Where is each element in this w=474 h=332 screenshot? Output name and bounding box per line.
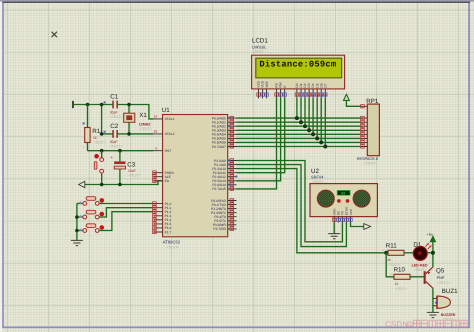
svg-text:<TEXT>: <TEXT> [93, 140, 106, 144]
U2 pin names (rotated) [332, 206, 352, 215]
wire RST line [88, 150, 154, 152]
svg-text:12MHZ: 12MHZ [139, 123, 152, 127]
junction R11/R10 split [384, 251, 388, 255]
U2 pin number boxes [333, 218, 353, 221]
U1 right pin stubs [228, 118, 237, 229]
wire U2 GND [333, 223, 335, 234]
capacitor C1 [104, 93, 123, 119]
svg-text:C2: C2 [110, 123, 118, 130]
svg-text:<TEXT>: <TEXT> [437, 281, 450, 285]
origin marker [52, 32, 58, 38]
wire Q5 collector to ground [432, 288, 434, 312]
wire C1 top rail to XTAL1 [74, 105, 153, 119]
svg-text:XTAL2: XTAL2 [165, 132, 175, 136]
svg-text:1k: 1k [395, 282, 399, 286]
LCD pin names (rotated) [257, 80, 328, 87]
svg-text:E: E [283, 85, 287, 87]
svg-text:R1: R1 [92, 128, 100, 135]
svg-text:RESPACK-8: RESPACK-8 [357, 157, 378, 161]
ground terminal bar (crystal section) [72, 101, 74, 108]
svg-text:9: 9 [155, 146, 157, 150]
svg-text:PNP: PNP [437, 276, 445, 280]
junction button rail [75, 215, 79, 232]
wire LCD D0-D7 verticals [297, 98, 325, 147]
svg-text:D7: D7 [323, 83, 327, 87]
svg-text:BUZZER: BUZZER [441, 313, 456, 317]
U2 transducer right [353, 190, 370, 207]
wire C2 rail to XTAL2 [74, 105, 153, 134]
svg-text:C3: C3 [127, 161, 135, 168]
junction RST line [100, 149, 122, 153]
ground (below buttons) [71, 240, 83, 245]
svg-text:XTAL1: XTAL1 [165, 117, 175, 121]
crystal X1 [124, 105, 152, 134]
svg-text:BUZ1: BUZ1 [442, 288, 458, 295]
junction EA line [100, 183, 122, 187]
ground (buzzer) [427, 312, 439, 317]
svg-text:32: 32 [230, 145, 234, 149]
ultrasonic sensor U2 SRF04 [310, 168, 377, 217]
svg-text:10uF: 10uF [128, 169, 136, 173]
svg-text:17: 17 [230, 227, 234, 231]
buzzer BUZ1 [433, 288, 458, 321]
U1 left pin stubs [153, 119, 162, 232]
svg-text:Distance:059cm: Distance:059cm [259, 60, 336, 70]
wire button ground rail [77, 203, 83, 240]
svg-text:19: 19 [154, 115, 158, 119]
svg-text:30pF: 30pF [110, 140, 118, 144]
svg-text:<TEXT>: <TEXT> [139, 127, 152, 131]
capacitor C2 [104, 123, 123, 149]
transistor Q5 PNP [424, 267, 450, 288]
svg-text:<TEXT>: <TEXT> [364, 161, 377, 165]
wire LED to +5V rail [427, 252, 433, 254]
wire K1 to P1.0 [99, 203, 153, 205]
svg-text:18: 18 [154, 130, 158, 134]
svg-text:P1.7: P1.7 [165, 230, 172, 234]
svg-text:P0.7/AD7: P0.7/AD7 [212, 145, 226, 149]
capacitor C3 (electrolytic) [111, 151, 142, 185]
svg-text:VEE: VEE [265, 81, 269, 87]
watermark CSDN [385, 320, 467, 329]
wire U2 VCC [351, 223, 364, 227]
svg-text:P3.7/RD: P3.7/RD [213, 227, 226, 231]
U1 right pin number boxes [230, 116, 234, 230]
wire R10 branch [386, 253, 394, 277]
svg-text:88: 88 [341, 192, 345, 197]
pin end markers (blue) [228, 117, 237, 186]
wire K3 to P1.2 [99, 212, 153, 231]
LCD pin number boxes [257, 93, 327, 96]
svg-text:LCD1: LCD1 [252, 38, 268, 45]
push button K1 [80, 197, 105, 206]
wire LCD RS to P2.7 [237, 98, 277, 189]
svg-text:+5v: +5v [427, 232, 433, 236]
svg-text:13: 13 [320, 93, 324, 97]
svg-text:1k: 1k [387, 258, 391, 262]
wire EA line [85, 181, 163, 185]
svg-text:31: 31 [153, 179, 157, 183]
resistor R1 [83, 105, 106, 151]
resistor R11 [382, 243, 413, 267]
U1 left pin names [165, 117, 175, 234]
wire P2.0 to U2 TR [237, 161, 343, 242]
svg-text:30pF: 30pF [110, 111, 118, 115]
svg-text:28: 28 [230, 187, 234, 191]
svg-text:R11: R11 [386, 243, 397, 250]
power terminal +5V (D1/Q5) [427, 232, 436, 242]
junction node C1/X1 [86, 103, 131, 136]
svg-text:<TEXT>: <TEXT> [252, 50, 265, 54]
U2 indicator dots [337, 199, 349, 203]
ground (U2) [328, 234, 340, 239]
LCD pin stubs [259, 89, 326, 99]
power terminal (U2 VCC) [364, 224, 371, 230]
wire K2 to P1.1 [99, 208, 153, 217]
svg-text:<TEXT>: <TEXT> [395, 287, 408, 291]
svg-text:<TEXT>: <TEXT> [110, 115, 123, 119]
wire RP1 common [346, 100, 361, 106]
svg-text:P2.7/A15: P2.7/A15 [212, 187, 226, 191]
push button RESET [94, 151, 103, 185]
svg-text:C1: C1 [110, 93, 118, 100]
svg-text:AT89C52: AT89C52 [163, 240, 181, 245]
svg-text:@: @ [406, 320, 414, 329]
U1 right pin names [211, 116, 226, 231]
wire LCD E to P2.3 [237, 98, 285, 173]
ground terminal arrow (EA line) [79, 181, 85, 187]
U2 transducer left [317, 190, 334, 207]
wire +5V rail to Q5 emitter [432, 242, 434, 267]
resistor R10 [390, 266, 423, 290]
power terminal +5V (RP1) [344, 94, 350, 100]
wire P2.1 to U2 ECHO [237, 165, 347, 247]
svg-text:LED-RED: LED-RED [412, 264, 428, 268]
U2 pin stubs [334, 217, 350, 223]
wire LCD RW to P2.5 [237, 98, 281, 181]
svg-text:R10: R10 [394, 266, 406, 273]
U2 mini display [337, 190, 350, 196]
push button K3 [80, 224, 105, 233]
RP1 pin stubs [361, 106, 367, 146]
U1 left pin numbers [154, 115, 158, 151]
LCD LCD1 LM016L [252, 38, 345, 89]
svg-text:X1: X1 [139, 112, 147, 119]
svg-text:SRF04: SRF04 [311, 175, 324, 180]
IC U1 AT89C52 body [162, 107, 228, 249]
svg-text:<TEXT>: <TEXT> [129, 173, 142, 177]
svg-text:<TEXT>: <TEXT> [110, 145, 123, 149]
svg-text:<TEXT>: <TEXT> [167, 245, 180, 249]
svg-text:14: 14 [324, 93, 328, 97]
svg-text:11: 11 [312, 93, 315, 97]
junction +5V rail [431, 251, 435, 255]
junction D0-D7 staircase [295, 116, 327, 148]
push button K2 [80, 210, 105, 219]
resistor pack RP1 [357, 98, 380, 165]
wire P2.2 to R11 [237, 169, 387, 253]
svg-text:VCC: VCC [349, 208, 353, 215]
svg-text:Q5: Q5 [436, 268, 445, 275]
svg-text:U1: U1 [162, 107, 170, 114]
RP1 pin numbers [361, 105, 365, 149]
LED D1 [412, 241, 432, 272]
svg-text:1k: 1k [93, 136, 97, 140]
svg-text:LM016L: LM016L [252, 45, 267, 50]
svg-text:RST: RST [165, 149, 172, 153]
wire left rail C1-C2 [101, 105, 103, 134]
wire P0 bus rows to RP1 [237, 118, 362, 146]
